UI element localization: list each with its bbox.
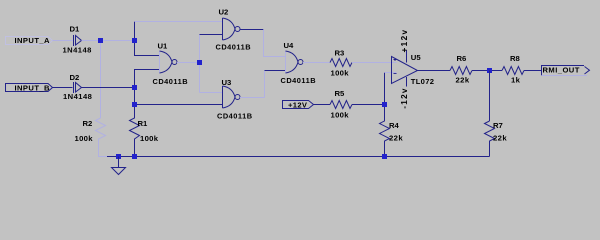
wire R2 bottom to ground rail (99, 141, 108, 157)
svg-text:R6: R6 (457, 54, 467, 63)
resistor R1 (130, 107, 140, 157)
resistor R8 (502, 67, 524, 75)
op-amp + mark (394, 58, 397, 61)
svg-text:CD4011B: CD4011B (281, 76, 317, 85)
wire into U4 input B (265, 70, 286, 72)
wire R5 to feedback node (352, 104, 385, 106)
svg-text:CD4011B: CD4011B (153, 77, 189, 86)
wire INPUT_B to D2 (53, 87, 73, 89)
wire D2 to node B (82, 87, 135, 89)
resistor R2 (96, 118, 106, 141)
wire to U2 input B (200, 34, 223, 36)
gate U3 CD4011B (223, 86, 241, 108)
svg-text:100k: 100k (331, 68, 350, 77)
node R1 bottom junction dot (132, 154, 137, 159)
port INPUT_A (6, 37, 53, 45)
svg-text:100k: 100k (75, 134, 94, 143)
node feedback junction dot (382, 102, 387, 107)
svg-text:R4: R4 (389, 121, 400, 130)
port INPUT_B (6, 84, 53, 92)
svg-text:1k: 1k (511, 75, 521, 84)
op-amp U5 TL072 (392, 50, 418, 87)
svg-text:R5: R5 (335, 89, 346, 98)
node output junction dot (487, 68, 492, 73)
port RMI_OUT arrow (585, 67, 590, 75)
svg-text:INPUT_A: INPUT_A (15, 36, 51, 45)
svg-text:100k: 100k (140, 134, 159, 143)
resistor R3 (330, 59, 352, 67)
node R4 bottom junction dot (382, 154, 387, 159)
wire into op-amp - input (385, 72, 397, 74)
node ground stem junction dot (116, 154, 121, 159)
wire R8 to output port (524, 70, 542, 72)
resistor R5 (330, 101, 352, 109)
wire R6 to output node (472, 70, 502, 72)
wire top run to U2 input A (135, 21, 223, 23)
svg-text:TL072: TL072 (411, 77, 434, 86)
svg-text:U1: U1 (158, 41, 169, 50)
wire U3 output up toward U4 input B (264, 71, 266, 98)
node U1 output junction dot (197, 60, 202, 65)
resistor R6 (450, 67, 472, 75)
svg-text:22k: 22k (456, 75, 470, 84)
svg-text:-12v: -12v (400, 87, 409, 109)
wire +12V to R5 (314, 104, 331, 106)
svg-text:+12v: +12v (400, 28, 409, 52)
svg-text:U4: U4 (284, 41, 295, 50)
wire U4 output to R3 (303, 62, 330, 64)
wire U3 output (240, 97, 265, 99)
svg-text:1N4148: 1N4148 (63, 45, 92, 54)
svg-text:U2: U2 (219, 7, 229, 16)
node B junction dot (132, 85, 137, 90)
port +12V (283, 101, 314, 109)
wire node A down to R2 (100, 41, 102, 119)
wire U1 output to node (177, 62, 200, 64)
port RMI_OUT bottom edge (542, 75, 588, 77)
port RMI_OUT (542, 66, 585, 76)
node junction dot at D1 column (132, 38, 137, 43)
svg-text:CD4011B: CD4011B (216, 42, 252, 51)
wire vertical up to U2 input (134, 22, 136, 41)
wire INPUT_A to D1 (53, 40, 73, 42)
diode D2 (74, 82, 82, 93)
svg-text:RMI_OUT: RMI_OUT (543, 65, 580, 74)
svg-text:INPUT_B: INPUT_B (15, 83, 51, 92)
svg-text:D2: D2 (70, 73, 80, 82)
svg-text:R2: R2 (83, 119, 93, 128)
wire U1 output column (to U2 in B and U3 in A) (199, 35, 201, 93)
gate U2 CD4011B (223, 18, 241, 40)
svg-text:22k: 22k (389, 133, 403, 142)
wire node B vertical (U1 input B down to R1) and across to U3 input B (135, 70, 223, 105)
wire down to U1 input A (135, 41, 160, 56)
svg-text:U3: U3 (222, 78, 232, 87)
op-amp - mark (394, 73, 397, 75)
wire op-amp output to R6 (418, 70, 451, 72)
ground rail wire (107, 156, 490, 158)
svg-text:R8: R8 (510, 54, 521, 63)
svg-text:CD4011B: CD4011B (217, 111, 253, 120)
svg-text:R7: R7 (493, 121, 503, 130)
wire node down to R7 (489, 71, 491, 122)
svg-text:R1: R1 (138, 119, 149, 128)
wire U2 output (240, 29, 264, 31)
wire R3 to op-amp + input (352, 62, 397, 64)
resistor R4 (380, 107, 390, 157)
gate U1 CD4011B (160, 51, 178, 73)
node junction dot above R1 (132, 102, 137, 107)
svg-text:R3: R3 (335, 49, 345, 58)
svg-text:D1: D1 (70, 25, 81, 34)
wire to U3 input A (200, 92, 223, 94)
wire feedback node up to op-amp - input (384, 73, 386, 105)
svg-text:100k: 100k (331, 111, 350, 120)
svg-text:22k: 22k (493, 133, 507, 142)
svg-text:U5: U5 (411, 53, 422, 62)
ground (112, 157, 126, 175)
wire D1 to node column (82, 40, 135, 42)
diode D1 (74, 35, 82, 46)
resistor R7 (485, 121, 495, 157)
gate U4 CD4011B (286, 51, 304, 73)
node A junction dot (98, 38, 103, 43)
svg-text:+12V: +12V (288, 101, 308, 110)
svg-text:1N4148: 1N4148 (63, 92, 92, 101)
wire U2 output down to U4 input A (264, 30, 286, 57)
